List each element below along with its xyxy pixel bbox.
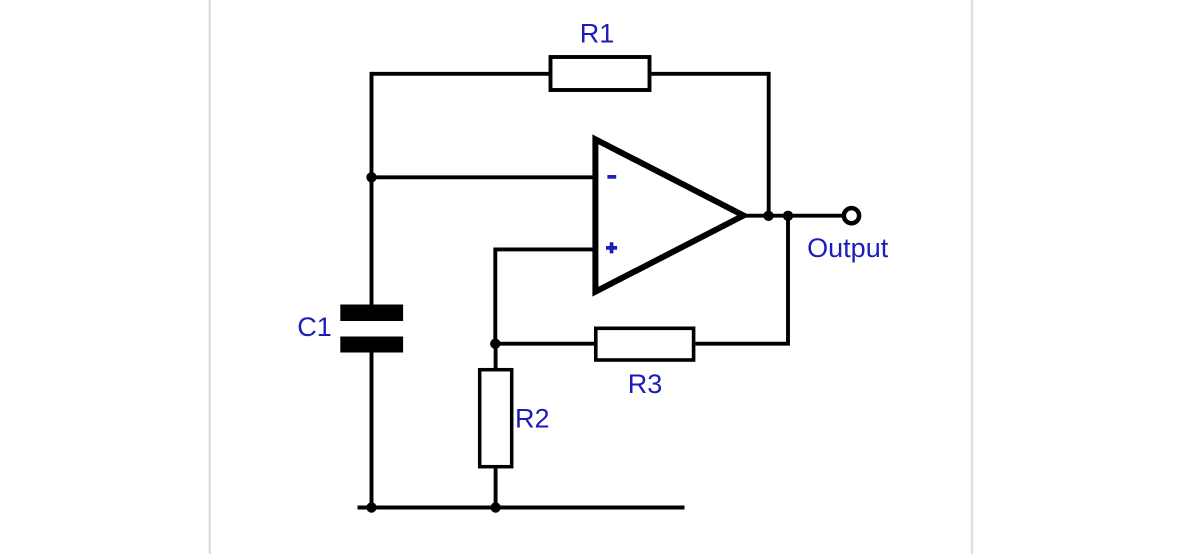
wire: R2 bottom stub <box>494 469 498 508</box>
op-amp inverting pin marker (-) <box>607 175 616 179</box>
wire: R2 top stub <box>494 344 498 368</box>
wire: node to R3 <box>495 342 594 346</box>
wire: left vertical lower (C1 to bottom rail) <box>370 352 374 508</box>
node: bottom rail / R2 branch <box>490 502 500 512</box>
node: bottom rail / C1 branch <box>366 502 376 512</box>
svg-text:R3: R3 <box>628 369 663 399</box>
wire: bottom rail <box>358 506 685 510</box>
svg-text:R2: R2 <box>515 404 550 434</box>
resistor R2 <box>480 370 512 467</box>
terminal: Output <box>844 208 859 223</box>
wire: top feedback loop (right segment + drop to output node) <box>652 74 769 216</box>
node: R2/R3 junction <box>490 339 500 349</box>
capacitor C1 bottom plate <box>340 337 403 353</box>
node: output junction A <box>763 211 773 221</box>
wire: op-amp output to terminal <box>743 214 843 218</box>
wire: R3 to output branch (right + up) <box>695 216 788 344</box>
wire: non-inverting input (horizontal + vertical to R2/R3 node) <box>495 249 595 343</box>
node: inverting-input junction <box>366 172 376 182</box>
op-amp non-inverting pin marker (+) <box>606 242 617 253</box>
page right border <box>971 0 973 554</box>
wire: inverting input <box>372 175 596 179</box>
page left border <box>209 0 211 554</box>
capacitor C1 top plate <box>340 305 403 322</box>
node: output junction B <box>783 211 793 221</box>
resistor R1 <box>551 57 650 90</box>
svg-text:C1: C1 <box>297 312 332 342</box>
wire: top feedback loop (left segment) <box>372 72 550 76</box>
svg-text:R1: R1 <box>580 19 615 49</box>
wire: left vertical upper (top loop to C1) <box>370 72 374 305</box>
resistor R3 <box>596 328 694 360</box>
op-amp U1 <box>595 139 743 291</box>
svg-text:Output: Output <box>807 233 889 263</box>
